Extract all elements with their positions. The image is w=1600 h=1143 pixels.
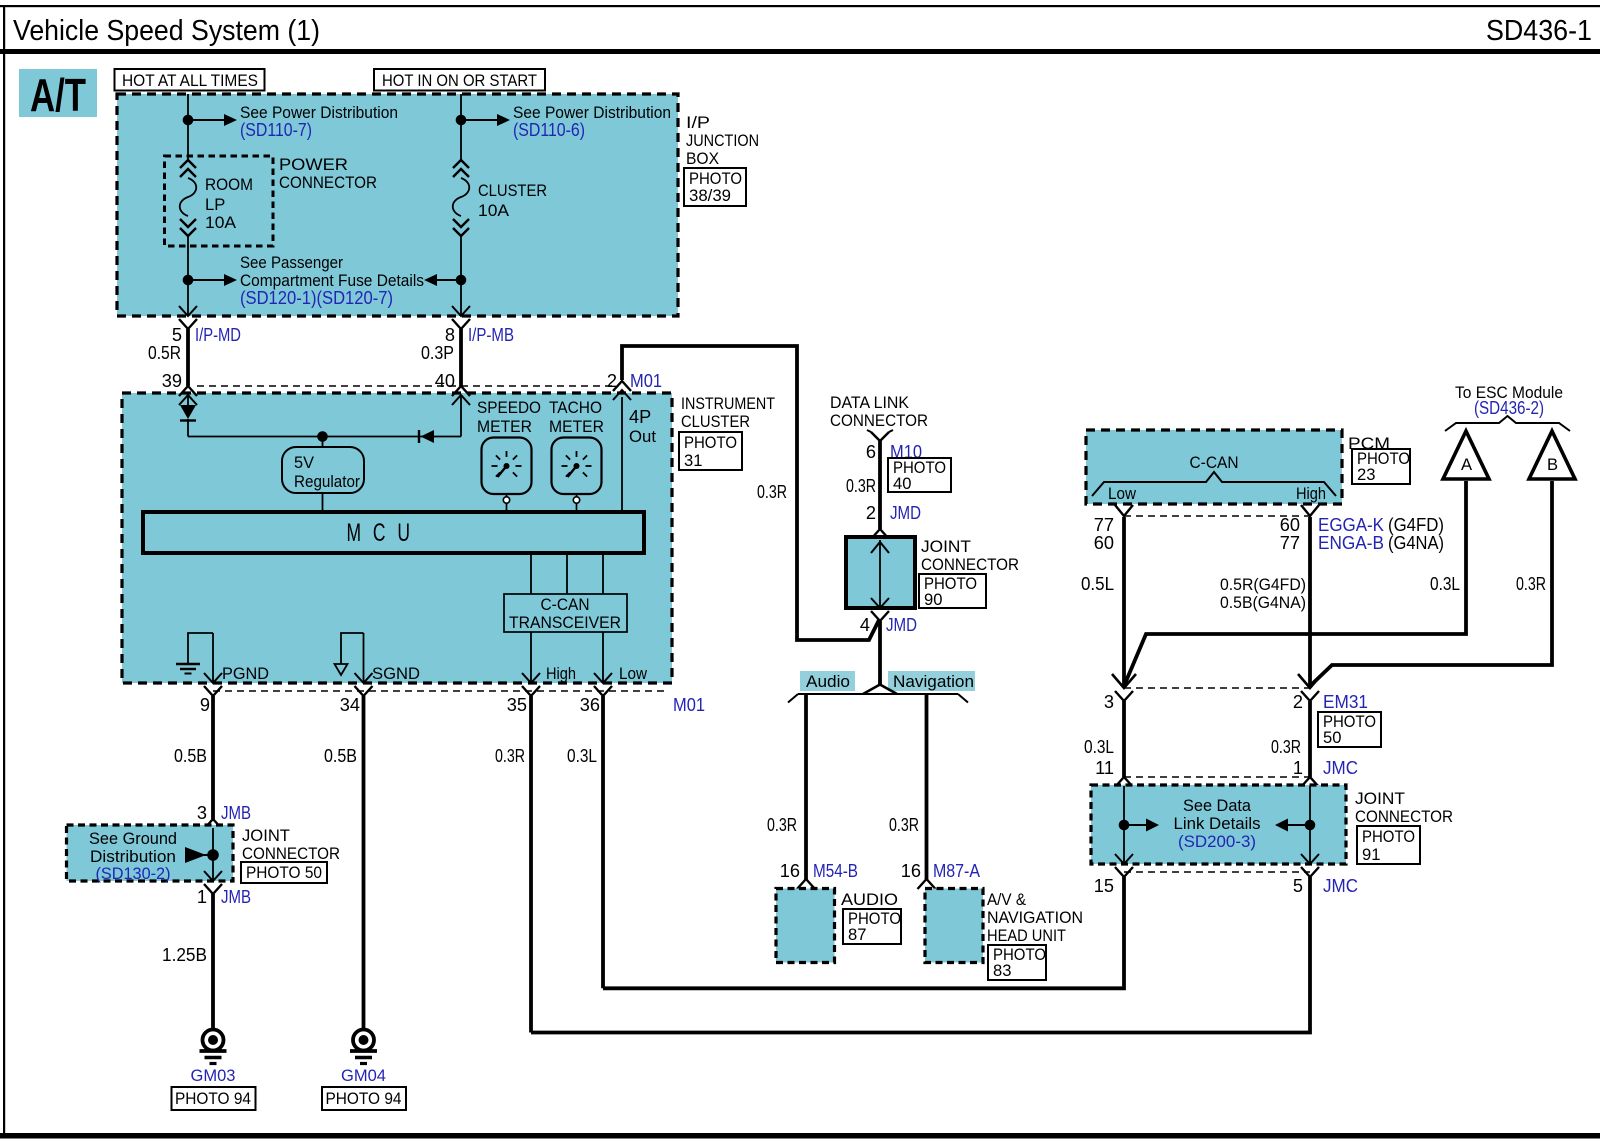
svg-text:0.3R: 0.3R (1516, 574, 1546, 594)
svg-text:EGGA-K: EGGA-K (1318, 515, 1384, 535)
svg-text:0.3R: 0.3R (889, 815, 919, 835)
svg-text:A/T: A/T (30, 69, 86, 121)
svg-text:0.3R: 0.3R (1271, 737, 1301, 757)
svg-text:16: 16 (901, 861, 921, 881)
svg-text:JUNCTION: JUNCTION (686, 131, 759, 150)
svg-text:8: 8 (445, 325, 455, 345)
svg-text:50: 50 (1323, 728, 1341, 747)
svg-text:JOINT: JOINT (1355, 789, 1405, 808)
svg-text:1.25B: 1.25B (162, 945, 207, 965)
svg-text:PHOTO 94: PHOTO 94 (175, 1089, 251, 1108)
svg-text:JMD: JMD (890, 503, 921, 523)
svg-text:PGND: PGND (222, 664, 269, 683)
svg-text:Link Details: Link Details (1174, 814, 1261, 833)
svg-text:(SD110-7): (SD110-7) (240, 120, 312, 140)
svg-text:16: 16 (780, 861, 800, 881)
svg-text:DATA LINK: DATA LINK (830, 393, 909, 412)
svg-text:SGND: SGND (372, 664, 420, 683)
svg-text:77: 77 (1094, 515, 1114, 535)
svg-text:5: 5 (172, 325, 182, 345)
svg-text:0.3R: 0.3R (846, 476, 876, 496)
svg-text:10A: 10A (205, 213, 237, 232)
svg-text:2: 2 (1293, 692, 1303, 712)
svg-text:90: 90 (924, 590, 942, 609)
svg-text:60: 60 (1280, 515, 1300, 535)
svg-text:0.3L: 0.3L (1084, 737, 1114, 757)
svg-text:GM03: GM03 (191, 1066, 236, 1085)
svg-text:(SD200-3): (SD200-3) (1178, 832, 1256, 851)
svg-text:0.3R: 0.3R (767, 815, 797, 835)
svg-text:M C U: M C U (347, 519, 414, 547)
svg-text:PHOTO: PHOTO (1362, 827, 1415, 846)
svg-text:High: High (1296, 484, 1326, 503)
svg-text:CLUSTER: CLUSTER (478, 181, 547, 200)
svg-text:ENGA-B: ENGA-B (1318, 533, 1384, 553)
svg-text:(G4FD): (G4FD) (1388, 515, 1444, 535)
svg-text:0.5B: 0.5B (174, 746, 207, 766)
svg-text:3: 3 (197, 803, 207, 823)
svg-text:Out: Out (629, 427, 656, 446)
svg-text:Vehicle Speed System (1): Vehicle Speed System (1) (13, 15, 320, 47)
svg-text:39: 39 (162, 371, 182, 391)
svg-text:JMC: JMC (1323, 758, 1358, 778)
svg-text:4: 4 (860, 615, 870, 635)
svg-text:I/P-MD: I/P-MD (195, 325, 241, 345)
svg-text:0.5B(G4NA): 0.5B(G4NA) (1220, 593, 1306, 612)
svg-text:SD436-1: SD436-1 (1486, 15, 1592, 47)
svg-text:JOINT: JOINT (242, 826, 290, 845)
svg-text:(G4NA): (G4NA) (1388, 533, 1444, 553)
svg-text:BOX: BOX (686, 149, 719, 168)
svg-text:CONNECTOR: CONNECTOR (279, 173, 377, 192)
svg-text:METER: METER (477, 417, 532, 436)
svg-text:6: 6 (866, 442, 876, 462)
svg-text:(SD120-1)(SD120-7): (SD120-1)(SD120-7) (240, 288, 393, 308)
svg-text:CONNECTOR: CONNECTOR (830, 411, 928, 430)
svg-text:HOT AT ALL TIMES: HOT AT ALL TIMES (122, 71, 258, 90)
svg-text:91: 91 (1362, 845, 1380, 864)
svg-text:JMC: JMC (1323, 876, 1358, 896)
svg-text:See Data: See Data (1183, 796, 1252, 815)
svg-text:SPEEDO: SPEEDO (477, 398, 541, 417)
svg-text:CONNECTOR: CONNECTOR (1355, 807, 1453, 826)
svg-text:See Passenger: See Passenger (240, 253, 343, 272)
svg-text:GM04: GM04 (341, 1066, 386, 1085)
svg-text:Low: Low (619, 664, 648, 683)
svg-text:0.3P: 0.3P (421, 343, 454, 363)
svg-text:9: 9 (200, 695, 210, 715)
svg-text:See Ground: See Ground (89, 829, 177, 848)
svg-text:NAVIGATION: NAVIGATION (987, 908, 1083, 927)
svg-text:40: 40 (893, 474, 911, 493)
svg-text:METER: METER (549, 417, 604, 436)
svg-text:5: 5 (1293, 876, 1303, 896)
svg-text:5V: 5V (294, 453, 314, 472)
svg-text:CONNECTOR: CONNECTOR (242, 844, 340, 863)
svg-text:CLUSTER: CLUSTER (681, 412, 750, 431)
svg-text:JMB: JMB (221, 803, 251, 823)
svg-text:36: 36 (580, 695, 600, 715)
svg-text:1: 1 (1293, 758, 1303, 778)
svg-text:INSTRUMENT: INSTRUMENT (681, 394, 775, 413)
svg-text:11: 11 (1095, 758, 1114, 778)
svg-text:C-CAN: C-CAN (1190, 453, 1239, 472)
svg-text:(SD110-6): (SD110-6) (513, 120, 585, 140)
svg-text:35: 35 (507, 695, 527, 715)
svg-text:0.5R(G4FD): 0.5R(G4FD) (1220, 575, 1306, 594)
svg-text:87: 87 (848, 925, 866, 944)
svg-text:HOT IN ON OR START: HOT IN ON OR START (382, 71, 537, 90)
svg-text:A: A (1461, 455, 1473, 474)
svg-text:1: 1 (197, 887, 207, 907)
svg-text:EM31: EM31 (1323, 692, 1368, 712)
svg-text:0.5L: 0.5L (1081, 574, 1114, 594)
svg-text:JMD: JMD (886, 615, 917, 635)
svg-text:4P: 4P (629, 407, 651, 427)
svg-text:(SD130-2): (SD130-2) (96, 864, 171, 883)
svg-text:Navigation: Navigation (893, 672, 974, 691)
svg-text:M87-A: M87-A (933, 861, 981, 881)
svg-text:TRANSCEIVER: TRANSCEIVER (509, 613, 621, 632)
svg-text:31: 31 (684, 451, 702, 470)
svg-text:JOINT: JOINT (921, 537, 971, 556)
svg-text:40: 40 (435, 371, 455, 391)
svg-text:0.3L: 0.3L (567, 746, 597, 766)
svg-text:I/P: I/P (686, 113, 710, 132)
svg-text:PHOTO: PHOTO (684, 433, 737, 452)
svg-text:0.3R: 0.3R (757, 482, 787, 502)
svg-text:C-CAN: C-CAN (541, 595, 590, 614)
svg-text:High: High (546, 664, 576, 683)
svg-text:(SD436-2): (SD436-2) (1474, 398, 1544, 418)
svg-text:0.5B: 0.5B (324, 746, 357, 766)
svg-text:Audio: Audio (806, 672, 850, 691)
svg-text:60: 60 (1094, 533, 1114, 553)
svg-text:77: 77 (1280, 533, 1300, 553)
svg-text:ROOM: ROOM (205, 175, 253, 194)
svg-text:POWER: POWER (279, 155, 348, 174)
svg-text:3: 3 (1104, 692, 1114, 712)
svg-text:HEAD UNIT: HEAD UNIT (987, 926, 1066, 945)
svg-text:PHOTO 50: PHOTO 50 (246, 863, 322, 882)
svg-text:38/39: 38/39 (689, 186, 731, 205)
svg-text:M01: M01 (673, 695, 705, 715)
svg-text:M54-B: M54-B (813, 861, 858, 881)
svg-text:LP: LP (205, 195, 225, 214)
svg-text:0.5R: 0.5R (148, 343, 181, 363)
svg-text:23: 23 (1357, 465, 1375, 484)
svg-text:B: B (1547, 455, 1558, 474)
svg-text:34: 34 (340, 695, 360, 715)
svg-text:0.3R: 0.3R (495, 746, 525, 766)
svg-text:A/V &: A/V & (987, 890, 1026, 909)
svg-text:I/P-MB: I/P-MB (468, 325, 514, 345)
svg-text:JMB: JMB (221, 887, 251, 907)
svg-text:PHOTO 94: PHOTO 94 (326, 1089, 402, 1108)
svg-text:M01: M01 (630, 371, 662, 391)
svg-text:83: 83 (993, 961, 1011, 980)
svg-text:Low: Low (1108, 484, 1137, 503)
svg-text:AUDIO: AUDIO (841, 890, 898, 909)
svg-text:Regulator: Regulator (294, 472, 360, 491)
svg-text:15: 15 (1094, 876, 1114, 896)
svg-text:2: 2 (866, 503, 876, 523)
svg-text:TACHO: TACHO (549, 398, 602, 417)
svg-text:10A: 10A (478, 201, 510, 220)
svg-text:CONNECTOR: CONNECTOR (921, 555, 1019, 574)
svg-text:0.3L: 0.3L (1430, 574, 1460, 594)
